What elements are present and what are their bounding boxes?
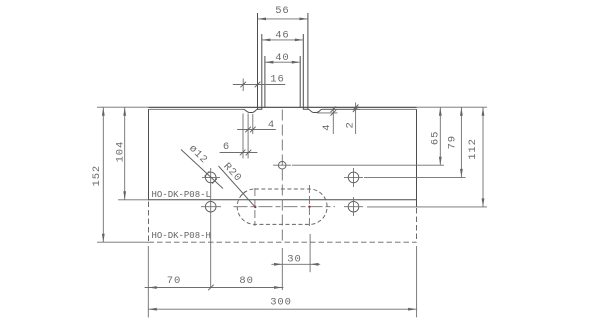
hole center <box>278 161 286 169</box>
hidden bottom edge (H variant) <box>149 241 417 243</box>
tab mid edge right (46) <box>302 34 304 107</box>
slot centerline horizontal <box>234 206 336 208</box>
extension line 152 bottom <box>97 241 149 243</box>
svg-text:6: 6 <box>223 141 230 153</box>
arrow 30 left inward <box>274 263 283 266</box>
arrow 80 right <box>274 286 283 289</box>
extension line 104 left <box>118 199 149 201</box>
leader tick on circle upper <box>205 171 210 176</box>
svg-text:56: 56 <box>275 5 289 17</box>
arrow 70 left <box>148 286 157 289</box>
arrow 112 bottom <box>482 198 485 207</box>
crosshair hole center <box>273 164 291 166</box>
tab base edge right step <box>303 107 308 109</box>
tick 6 left <box>240 150 246 156</box>
tab base edge left step <box>258 107 262 109</box>
arrow 300 left <box>148 308 157 311</box>
leader tick R20 on arc <box>240 191 245 196</box>
slot (hidden obround) <box>237 189 327 224</box>
arrow 40 left <box>265 61 274 64</box>
arrow 46 right <box>295 39 304 42</box>
slot right arc center point <box>308 206 310 208</box>
svg-text:4: 4 <box>268 119 275 131</box>
crosshair hole upper-left <box>202 176 220 178</box>
oblique ticks <box>208 82 358 291</box>
tick 70-80 junction <box>208 285 214 291</box>
arrow 46 left <box>262 39 271 42</box>
arrow 112 top <box>482 107 485 116</box>
extension line top full width <box>97 106 149 108</box>
svg-text:80: 80 <box>239 275 253 287</box>
extension line 79 <box>364 176 466 178</box>
arrow 56 left <box>258 18 267 21</box>
extension vertical 16 dim <box>242 79 244 92</box>
dimension texts <box>91 5 479 309</box>
arrow 40 right <box>292 61 301 64</box>
tick 4v top <box>331 107 337 113</box>
arrow 104 bottom <box>123 191 126 200</box>
crosshair hole lower-right <box>344 206 363 208</box>
tick 4v bottom <box>331 110 337 116</box>
tab outer edge right (56) <box>307 13 309 109</box>
dim line 65 <box>439 107 441 165</box>
arrows <box>102 18 485 311</box>
tick 6 right <box>246 150 252 156</box>
svg-text:HO-DK-P08-H: HO-DK-P08-H <box>152 231 211 241</box>
dim line 300 <box>148 308 416 310</box>
hole lower-left <box>205 201 216 212</box>
tab inner edge left (40) <box>264 56 266 107</box>
hole lower-right <box>348 201 359 212</box>
tab inner edge right (40) <box>299 56 301 107</box>
extension line left holes vertical <box>210 168 212 288</box>
tick 16 left <box>240 82 246 88</box>
dim line 16 <box>233 84 285 86</box>
leader R20 <box>219 166 256 207</box>
svg-text:104: 104 <box>114 141 126 163</box>
svg-text:112: 112 <box>467 138 479 160</box>
svg-text:300: 300 <box>270 297 292 309</box>
hole upper-right <box>348 172 359 183</box>
extension line notch depth ref <box>317 112 338 114</box>
hidden right edge (H variant) <box>416 208 418 242</box>
slot left arc center point <box>254 206 256 208</box>
svg-text:152: 152 <box>91 165 103 187</box>
tick 2v top <box>353 105 359 111</box>
plate top edge right section <box>322 108 416 110</box>
svg-text:79: 79 <box>447 135 459 149</box>
extension line 112 <box>367 206 487 208</box>
dim line 6 notch <box>220 152 258 154</box>
extension line 65 <box>292 164 444 166</box>
extension line edge step ref <box>322 108 359 110</box>
tab mid edge left (46) <box>261 34 263 107</box>
dim line 152 <box>102 107 104 242</box>
plate right edge <box>416 109 418 207</box>
tick 2v bottom <box>353 107 359 113</box>
crosshair hole lower-left <box>201 206 221 208</box>
relief notch left <box>243 109 257 112</box>
svg-text:30: 30 <box>287 253 301 265</box>
centerline vertical plate center <box>281 110 283 244</box>
dim line 70 80 <box>145 287 284 289</box>
svg-text:16: 16 <box>270 74 284 86</box>
tick 4 notch right <box>250 127 256 133</box>
arrow 79 bottom <box>460 169 463 178</box>
arrow 65 top <box>439 107 442 116</box>
svg-text:40: 40 <box>275 52 289 64</box>
tick 4 notch left <box>245 127 251 133</box>
extension verticals 300 dim <box>147 246 149 317</box>
leader diameter 12 <box>181 150 223 189</box>
dim line 30 <box>271 263 320 265</box>
arrow 152 bottom <box>102 234 105 243</box>
extension centerline to bottom dims <box>281 248 283 290</box>
svg-text:HO-DK-P08-L: HO-DK-P08-L <box>152 190 211 200</box>
dim line 56 <box>258 18 308 20</box>
arrow 300 right <box>408 308 417 311</box>
dim line 40 <box>265 61 300 63</box>
arrow 104 top <box>123 107 126 116</box>
tick 16 right <box>255 82 261 88</box>
hidden left edge (H variant) <box>148 202 150 243</box>
hole upper-left Ø12 <box>205 172 216 183</box>
dim line 79 <box>460 107 462 177</box>
extension verticals notch dims <box>242 114 244 159</box>
relief notch right <box>308 109 322 112</box>
plate top edge left section <box>149 108 244 110</box>
dim line 46 <box>262 39 304 41</box>
svg-text:65: 65 <box>429 131 441 145</box>
svg-text:2: 2 <box>345 121 357 128</box>
arrow 152 top <box>102 107 105 116</box>
arrow 79 top <box>460 107 463 116</box>
plate bottom edge (L variant) <box>149 199 417 201</box>
svg-text:4: 4 <box>321 124 333 131</box>
dim line 4 vertical right <box>332 108 334 135</box>
leader tick on circle lower <box>212 179 217 184</box>
slot left arc centerline vertical <box>254 188 256 226</box>
dim line 4 notch <box>237 129 276 131</box>
dim line 2 vertical right <box>355 103 357 135</box>
extension line for 30 dim right <box>309 234 311 272</box>
arrow 56 right <box>299 18 308 21</box>
dim line 104 <box>124 107 126 200</box>
tab outer edge left (56) <box>257 13 259 109</box>
crosshair hole upper-right <box>344 176 363 178</box>
dim line 112 <box>482 107 484 207</box>
arrow 30 right inward <box>310 263 319 266</box>
arrow 65 bottom <box>439 157 442 166</box>
svg-text:46: 46 <box>275 30 289 42</box>
plate left edge <box>148 109 150 200</box>
slot right arc centerline vertical <box>308 185 310 229</box>
svg-text:70: 70 <box>167 275 181 287</box>
